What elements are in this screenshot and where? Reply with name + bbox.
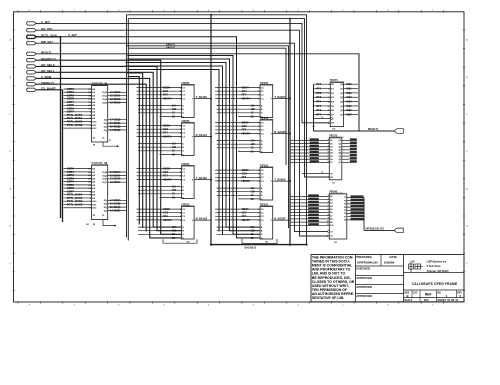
svg-text:A: A <box>466 39 468 42</box>
bus DA10(0:7) bottom <box>211 244 307 246</box>
svg-text:C1: C1 <box>261 213 265 215</box>
svg-text:13 CBO3: 13 CBO3 <box>110 101 121 104</box>
svg-text:11B: 11B <box>172 109 176 111</box>
svg-text:Y: Y <box>192 180 194 182</box>
V1 inner vertical a <box>127 73 143 228</box>
svg-text:7: 7 <box>432 304 434 306</box>
svg-text:2: 2 <box>328 195 329 197</box>
svg-text:2G: 2G <box>172 116 175 118</box>
svg-text:C2: C2 <box>182 216 186 218</box>
svg-text:OE: OE <box>330 177 333 179</box>
wire V_BAR <box>36 78 181 238</box>
svg-text:C3: C3 <box>182 179 186 181</box>
input connector flag GP_SEL0 <box>27 65 37 68</box>
svg-text:A: A <box>261 139 263 142</box>
svg-text:A: A <box>466 187 468 190</box>
svg-text:C2: C2 <box>182 95 186 97</box>
wire net T1 top <box>127 15 307 245</box>
junction col B out 2 <box>289 133 291 135</box>
svg-text:A5: A5 <box>92 104 96 107</box>
svg-text:A5: A5 <box>330 208 332 211</box>
svg-text:HEAP4: HEAP4 <box>242 97 251 100</box>
wire 74F374 control vertical <box>313 84 315 131</box>
bus RF outputs vertical <box>358 54 360 131</box>
title block outline <box>311 255 464 302</box>
svg-text:A: A <box>182 142 184 145</box>
svg-text:G: G <box>261 195 263 197</box>
input connector flag RF(0:7) <box>27 52 37 55</box>
svg-text:DQ7: DQ7 <box>103 182 108 184</box>
svg-text:1G: 1G <box>251 234 254 236</box>
svg-text:B_DA1X1: B_DA1X1 <box>196 134 208 137</box>
svg-text:B: B <box>466 77 468 79</box>
svg-text:11: 11 <box>109 140 112 142</box>
svg-text:6: 6 <box>118 304 120 306</box>
svg-text:11A: 11A <box>172 104 176 107</box>
svg-text:A1: A1 <box>330 195 332 198</box>
svg-text:T_DA3X4: T_DA3X4 <box>274 96 286 99</box>
svg-text:CC3: CC3 <box>163 212 169 215</box>
branch wire to V2 a <box>128 56 260 235</box>
svg-text:A3: A3 <box>330 202 332 205</box>
svg-text:A4: A4 <box>92 101 96 104</box>
svg-text:DQ7: DQ7 <box>347 114 353 117</box>
svg-text:A8: A8 <box>92 114 96 117</box>
svg-text:D3: D3 <box>331 97 335 99</box>
svg-text:19: 19 <box>102 137 105 139</box>
svg-text:5: 5 <box>163 304 165 306</box>
svg-text:CBO5: CBO5 <box>242 121 250 124</box>
wire C_BA* <box>36 23 328 122</box>
svg-text:CBO6: CBO6 <box>242 169 250 172</box>
input connector flag CBP(0:7) <box>27 83 37 86</box>
svg-text:11A: 11A <box>251 226 255 229</box>
svg-text:9: 9 <box>328 218 329 220</box>
svg-text:A6: A6 <box>92 107 96 110</box>
svg-text:CC5: CC5 <box>242 125 248 128</box>
svg-text:DQ: DQ <box>104 126 108 128</box>
svg-text:A9: A9 <box>92 117 96 120</box>
svg-text:C3: C3 <box>261 220 265 222</box>
svg-text:A9: A9 <box>330 221 332 224</box>
svg-text:DQ6: DQ6 <box>103 179 108 181</box>
svg-text:LISP Machine Inc.: LISP Machine Inc. <box>427 261 448 264</box>
svg-text:PREPARED: PREPARED <box>356 255 371 259</box>
svg-text:11A: 11A <box>251 139 255 142</box>
svg-text:DQ4: DQ4 <box>103 171 108 174</box>
svg-text:DQ6: DQ6 <box>347 109 353 112</box>
svg-text:G: G <box>182 234 184 236</box>
bus col A outputs vertical <box>210 15 212 245</box>
svg-text:B: B <box>406 294 408 298</box>
input connector flag GP_SEL1 <box>27 71 37 74</box>
svg-text:9: 9 <box>328 161 329 163</box>
svg-text:REF: REF <box>425 293 432 297</box>
svg-text:3: 3 <box>328 142 329 144</box>
svg-text:CC6: CC6 <box>242 173 248 176</box>
svg-text:NO.: NO. <box>437 292 441 294</box>
svg-text:11B: 11B <box>251 144 255 146</box>
svg-text:5: 5 <box>328 149 329 151</box>
svg-text:2G: 2G <box>172 238 175 240</box>
svg-text:10: 10 <box>327 221 329 223</box>
svg-text:A0: A0 <box>92 88 96 91</box>
svg-text:RF1: RF1 <box>317 87 322 90</box>
svg-text:CY7C171_08: CY7C171_08 <box>92 161 108 165</box>
svg-text:RF1: RF1 <box>163 132 168 135</box>
svg-text:HEAP7: HEAP7 <box>242 219 251 222</box>
svg-text:11A: 11A <box>251 187 255 190</box>
svg-text:Y7: Y7 <box>344 216 346 218</box>
svg-text:HEAP6: HEAP6 <box>242 180 251 183</box>
svg-text:A0: A0 <box>92 168 96 171</box>
title block approval rows <box>356 255 404 299</box>
svg-text:DQ1: DQ1 <box>347 87 353 90</box>
svg-text:8: 8 <box>328 214 329 216</box>
svg-text:B: B <box>261 144 263 146</box>
drawing frame border <box>14 12 465 302</box>
svg-text:W: W <box>93 145 96 147</box>
svg-text:RF5: RF5 <box>317 105 322 108</box>
frame zone tick marks <box>10 10 469 306</box>
svg-text:Y1: Y1 <box>344 197 346 199</box>
wire loop under mux A4 <box>163 239 197 243</box>
branch wire to V2 c <box>127 63 261 228</box>
svg-text:A: A <box>261 226 263 229</box>
svg-text:LE: LE <box>330 173 333 175</box>
svg-text:A9: A9 <box>92 197 96 200</box>
svg-text:G: G <box>182 194 184 196</box>
svg-text:6: 6 <box>328 208 329 210</box>
svg-text:CY7C171_20: CY7C171_20 <box>92 81 108 85</box>
wire RF(0:7) <box>36 54 359 131</box>
input connector flag GP_OE* <box>27 29 37 32</box>
svg-text:CC4: CC4 <box>242 90 248 93</box>
svg-text:A1: A1 <box>92 171 96 174</box>
svg-text:RF0: RF0 <box>163 94 168 97</box>
svg-text:2G: 2G <box>251 151 254 153</box>
buffer U3 74F540 <box>290 190 364 243</box>
svg-text:CHECKED: CHECKED <box>356 267 370 271</box>
svg-text:11B: 11B <box>172 231 176 233</box>
svg-text:Q2: Q2 <box>339 146 342 148</box>
svg-text:C0: C0 <box>182 168 186 170</box>
svg-text:11: 11 <box>327 224 329 226</box>
svg-text:DQ0: DQ0 <box>103 92 108 94</box>
wire GP_OE* <box>36 30 327 236</box>
svg-text:DQ2: DQ2 <box>103 99 108 101</box>
svg-text:C1: C1 <box>261 174 265 176</box>
svg-text:1G: 1G <box>172 151 175 153</box>
mux U4 74F253 section 1 (col A) <box>137 120 212 156</box>
vertical DA1 left <box>127 19 129 241</box>
svg-text:C0: C0 <box>182 209 186 211</box>
svg-text:DQ: DQ <box>104 207 108 209</box>
svg-text:A: A <box>261 104 263 107</box>
junction bus left <box>210 244 212 246</box>
svg-text:A12: A12 <box>92 207 97 210</box>
svg-text:DA3(0:7): DA3(0:7) <box>166 43 175 46</box>
svg-text:D2: D2 <box>330 146 332 148</box>
svg-text:T_DA1X2: T_DA1X2 <box>196 177 208 180</box>
svg-text:APPROVED: APPROVED <box>356 285 372 289</box>
input connector flag PW_BA* <box>27 42 37 45</box>
svg-text:1R: 1R <box>93 215 96 217</box>
svg-text:Q6: Q6 <box>339 159 342 161</box>
svg-text:DQ0: DQ0 <box>347 83 353 86</box>
wire CBP(0:7) <box>36 84 146 231</box>
svg-text:Y: Y <box>271 181 273 183</box>
svg-text:D5: D5 <box>330 156 332 158</box>
bus DA1(0:7) top <box>128 48 286 165</box>
svg-text:Y5: Y5 <box>344 210 346 212</box>
svg-text:C0: C0 <box>261 170 265 172</box>
svg-text:DQ5: DQ5 <box>103 175 108 177</box>
svg-text:Y6: Y6 <box>344 213 346 215</box>
svg-text:7: 7 <box>328 211 329 213</box>
svg-text:D6: D6 <box>330 159 332 161</box>
svg-text:RF0: RF0 <box>317 83 322 86</box>
svg-text:HEAP3: HEAP3 <box>163 219 172 222</box>
svg-text:SCALE: SCALE <box>404 299 413 302</box>
svg-text:1: 1 <box>342 304 344 306</box>
svg-text:Y8: Y8 <box>344 220 346 222</box>
input connector flag V_BAR <box>27 77 37 80</box>
svg-text:C1: C1 <box>182 91 186 93</box>
svg-text:C2: C2 <box>182 133 186 135</box>
junction col B out 1 <box>289 98 291 100</box>
svg-text:D1: D1 <box>330 143 332 145</box>
svg-text:8/18/86: 8/18/86 <box>384 261 395 265</box>
bus col B outputs vertical <box>289 19 291 245</box>
svg-text:C0: C0 <box>182 87 186 89</box>
junction col A out 3 <box>210 179 212 181</box>
svg-text:2: 2 <box>328 139 329 141</box>
svg-text:Y: Y <box>192 220 194 222</box>
svg-text:14 CBQ3: 14 CBQ3 <box>110 129 121 132</box>
svg-text:A6: A6 <box>92 187 96 190</box>
svg-text:8: 8 <box>328 158 329 160</box>
svg-text:Q0: Q0 <box>339 140 342 142</box>
svg-text:C: C <box>466 114 468 116</box>
svg-text:A10: A10 <box>92 121 97 124</box>
svg-text:A11: A11 <box>92 203 97 206</box>
svg-text:2G: 2G <box>251 238 254 240</box>
svg-text:DA1(0:7): DA1(0:7) <box>166 46 175 49</box>
wire PCTL_BUS flag to bus <box>36 36 60 38</box>
svg-text:1G: 1G <box>172 113 175 115</box>
svg-text:11A: 11A <box>172 226 176 229</box>
svg-text:C3: C3 <box>261 181 265 183</box>
svg-text:4: 4 <box>208 304 210 306</box>
svg-text:C2: C2 <box>261 216 265 218</box>
svg-text:1R: 1R <box>93 137 96 139</box>
svg-text:B: B <box>261 109 263 111</box>
svg-text:L M I: L M I <box>410 260 416 263</box>
svg-text:D: D <box>10 151 12 153</box>
svg-text:2: 2 <box>298 304 300 306</box>
svg-text:C1: C1 <box>182 129 186 131</box>
svg-text:SENTATIVE OF LMI.: SENTATIVE OF LMI. <box>312 296 344 300</box>
svg-text:11B: 11B <box>172 147 176 149</box>
svg-text:11A: 11A <box>251 104 255 107</box>
svg-text:8: 8 <box>29 304 31 306</box>
svg-text:A8: A8 <box>330 218 332 221</box>
svg-text:C0: C0 <box>182 125 186 127</box>
svg-text:A10: A10 <box>330 224 333 227</box>
svg-text:Y: Y <box>271 220 273 222</box>
svg-text:DRFRANKLIN: DRFRANKLIN <box>357 261 378 265</box>
svg-text:G2: G2 <box>330 236 333 238</box>
svg-text:A: A <box>182 185 184 188</box>
svg-text:SHEET 34 OF 41: SHEET 34 OF 41 <box>437 298 458 302</box>
junction col A out 2 <box>210 136 212 138</box>
mux U6 74F253 section 3 (col B) <box>215 203 290 243</box>
wire GP_SEL1 <box>36 72 181 227</box>
svg-text:APPROVED: APPROVED <box>356 294 372 298</box>
svg-text:A4: A4 <box>330 205 333 208</box>
svg-text:T_DA3X6: T_DA3X6 <box>274 179 286 182</box>
svg-text:PCTL_BUS3: PCTL_BUS3 <box>67 123 83 127</box>
svg-text:A: A <box>10 187 12 190</box>
title block company/title section <box>404 260 465 302</box>
svg-text:1G: 1G <box>251 195 254 197</box>
svg-text:DQ1: DQ1 <box>103 96 108 98</box>
svg-text:DQ4: DQ4 <box>347 101 353 104</box>
svg-text:C1: C1 <box>182 172 186 174</box>
svg-text:B_DA1X3: B_DA1X3 <box>196 218 208 221</box>
svg-text:C0: C0 <box>261 87 265 89</box>
svg-text:B: B <box>466 226 468 228</box>
svg-text:Y3: Y3 <box>344 204 346 206</box>
RAM U2 CY7C171_08 <box>64 161 128 227</box>
svg-text:RF3: RF3 <box>317 96 322 99</box>
svg-text:C: C <box>10 263 12 265</box>
svg-text:C0: C0 <box>261 122 265 124</box>
svg-text:11B: 11B <box>251 109 255 111</box>
svg-text:G: G <box>261 234 263 236</box>
svg-text:RF5: RF5 <box>242 129 247 132</box>
svg-text:C1: C1 <box>182 213 186 215</box>
svg-text:A3: A3 <box>92 177 96 180</box>
svg-text:HEAP0: HEAP0 <box>163 97 172 100</box>
svg-text:A8: A8 <box>92 194 96 197</box>
svg-text:C2: C2 <box>182 176 186 178</box>
svg-text:HEAP1: HEAP1 <box>163 135 172 138</box>
input connector flag C_BA* <box>27 22 37 25</box>
wire net T2 top <box>128 19 328 177</box>
junction bus right <box>305 244 307 246</box>
svg-text:B: B <box>261 192 263 194</box>
svg-text:OE: OE <box>331 123 334 125</box>
svg-text:A1: A1 <box>92 91 96 94</box>
svg-text:D7: D7 <box>330 162 332 164</box>
svg-text:1G: 1G <box>172 194 175 196</box>
svg-text:DA10(0:7): DA10(0:7) <box>245 246 257 249</box>
svg-text:19: 19 <box>102 215 105 217</box>
svg-text:G: G <box>182 151 184 153</box>
svg-text:11B: 11B <box>251 192 255 194</box>
svg-text:A: A <box>182 104 184 107</box>
svg-text:G: G <box>261 148 263 150</box>
svg-text:B: B <box>182 109 184 111</box>
svg-text:DQ: DQ <box>104 123 108 125</box>
svg-text:2G: 2G <box>172 154 175 156</box>
junction bus mid <box>289 244 291 246</box>
svg-text:D2: D2 <box>331 93 335 95</box>
svg-text:LE: LE <box>86 224 89 226</box>
branch wire to V2 e <box>128 70 219 232</box>
svg-text:G: G <box>261 113 263 115</box>
bus vertical 2 <box>62 90 64 222</box>
svg-text:C3: C3 <box>261 98 265 100</box>
svg-text:DQ5: DQ5 <box>347 105 353 108</box>
svg-text:B: B <box>261 231 263 233</box>
svg-text:APPROVED: APPROVED <box>356 276 372 280</box>
svg-text:Q1: Q1 <box>339 143 342 145</box>
wire HP33 bus to output flag <box>364 229 394 231</box>
svg-text:C3: C3 <box>182 220 186 222</box>
svg-text:B: B <box>10 77 12 79</box>
svg-text:T_DA1X0: T_DA1X0 <box>196 96 208 99</box>
svg-text:DQ: DQ <box>104 120 108 122</box>
svg-text:U5: U5 <box>333 129 337 131</box>
svg-text:DQ: DQ <box>104 204 108 206</box>
svg-text:7: 7 <box>74 304 76 306</box>
svg-text:A: A <box>10 39 12 42</box>
svg-text:RF2: RF2 <box>163 175 168 178</box>
mux U4 74F253 section 3 (col A) <box>137 203 212 243</box>
svg-text:Q5: Q5 <box>339 156 342 158</box>
svg-text:CC7: CC7 <box>242 212 248 215</box>
svg-text:G: G <box>182 113 184 115</box>
svg-text:RF2: RF2 <box>317 92 322 95</box>
svg-text:CBO2: CBO2 <box>163 167 171 170</box>
svg-text:1: 1 <box>446 294 448 298</box>
svg-text:RF4: RF4 <box>242 94 247 97</box>
svg-text:A7: A7 <box>330 214 332 217</box>
svg-text:D0: D0 <box>331 84 335 86</box>
junction col A out 1 <box>210 98 212 100</box>
svg-text:RF7: RF7 <box>242 215 247 218</box>
svg-text:Andover, MA 01810: Andover, MA 01810 <box>427 270 450 273</box>
svg-text:A11: A11 <box>92 124 97 127</box>
svg-text:CBO3: CBO3 <box>163 208 171 211</box>
svg-text:C2: C2 <box>261 95 265 97</box>
svg-text:D7: D7 <box>331 115 335 117</box>
svg-text:A: A <box>182 226 184 229</box>
svg-text:5: 5 <box>328 205 329 207</box>
svg-text:A3: A3 <box>92 98 96 101</box>
svg-text:11A: 11A <box>172 185 176 188</box>
svg-text:CC2: CC2 <box>163 171 169 174</box>
svg-text:CC0: CC0 <box>163 90 169 93</box>
svg-text:D: D <box>466 151 468 153</box>
svg-text:A2: A2 <box>92 94 96 97</box>
svg-text:13 CBO7: 13 CBO7 <box>110 181 121 184</box>
svg-text:Q3: Q3 <box>339 150 342 152</box>
svg-text:DQ: DQ <box>104 130 108 132</box>
svg-text:1G: 1G <box>251 148 254 150</box>
mux U4 74F253 section 2 (col A) <box>137 163 212 199</box>
svg-text:B: B <box>10 226 12 228</box>
svg-text:D3: D3 <box>330 150 332 152</box>
svg-text:CALLHEAPS OPEN FRAME: CALLHEAPS OPEN FRAME <box>412 282 458 286</box>
branch wire to V2 b <box>128 59 260 231</box>
register U5 74F374 <box>313 79 358 131</box>
svg-text:11B: 11B <box>251 231 255 233</box>
svg-text:RF3: RF3 <box>163 215 168 218</box>
